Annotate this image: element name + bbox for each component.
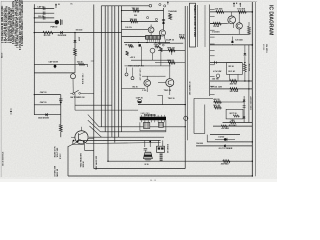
wire bus line 2 xyxy=(104,6,106,132)
wire right drop x60 xyxy=(60,95,62,125)
svg-text:100 30: 100 30 xyxy=(38,16,45,18)
label col bottom-left 1a xyxy=(54,146,57,157)
node TP3 xyxy=(155,18,157,20)
wire long vertical x185 xyxy=(184,6,186,140)
label col bottom-left 1b xyxy=(57,147,59,157)
wire bus line 5 xyxy=(114,6,116,143)
wire SW1 right lead xyxy=(81,92,94,94)
wire ladder rung 1 xyxy=(210,9,215,11)
capacitor C7 xyxy=(144,148,148,152)
svg-text:TR3 500: TR3 500 xyxy=(130,19,137,21)
value label R20 xyxy=(230,82,237,85)
wire bus line 4 xyxy=(111,6,113,137)
note text line 2 xyxy=(3,8,6,43)
node q2 lead a xyxy=(73,140,75,142)
value label D2 vertical xyxy=(78,37,80,41)
svg-text:300 W: 300 W xyxy=(83,161,85,167)
svg-text:TWO VALVE 300: TWO VALVE 300 xyxy=(95,156,98,170)
resistor R18 xyxy=(248,26,251,34)
label 7b top xyxy=(70,3,73,5)
resistor R23 xyxy=(214,106,221,109)
resistor R8 xyxy=(129,45,134,47)
svg-text:+30 MAX: +30 MAX xyxy=(221,127,230,130)
value label VR3 xyxy=(77,62,83,64)
transistor Q11 xyxy=(216,74,220,78)
value label R15 xyxy=(215,7,224,10)
node bus junction a xyxy=(121,10,122,11)
value label rail88 xyxy=(211,85,222,88)
resistor R20 xyxy=(230,80,237,83)
value label rail xyxy=(76,29,83,31)
power +B arrow r2 xyxy=(239,3,241,7)
svg-text:+30 V: +30 V xyxy=(130,57,136,59)
resistor R24 xyxy=(233,115,239,117)
svg-text:TR2 500: TR2 500 xyxy=(132,8,139,10)
power +B arrow right xyxy=(167,1,169,4)
value label R16 xyxy=(237,7,246,10)
svg-text:TWO 30: TWO 30 xyxy=(164,90,172,92)
wire rail y62 xyxy=(155,62,185,64)
wire rail audio y104 xyxy=(138,104,185,106)
diode D9 xyxy=(243,117,246,119)
label under J1 xyxy=(51,26,58,28)
wire ladder rung 10 xyxy=(210,75,215,77)
wire rail r y44 xyxy=(210,44,253,46)
value label R27 xyxy=(221,162,230,165)
capacitor C6 xyxy=(243,106,246,107)
capacitor C5 xyxy=(162,19,165,20)
wire rail y29 xyxy=(122,29,149,31)
svg-text:BASE 30 R: BASE 30 R xyxy=(54,146,57,157)
label bottom margin xyxy=(150,180,156,182)
svg-text:SW POWER ON: SW POWER ON xyxy=(70,97,85,99)
value label R5 xyxy=(132,8,139,10)
value label rail y94 xyxy=(40,91,47,94)
wire bus line 1 xyxy=(100,6,102,127)
wire SW1 left lead xyxy=(70,93,72,95)
wire audio drop a xyxy=(139,122,141,130)
wire rail r y62 xyxy=(210,62,243,64)
diode D4 xyxy=(162,22,165,24)
svg-text:PRE 301: PRE 301 xyxy=(167,48,175,50)
wire right border inner xyxy=(251,2,253,176)
pin stubs U2 top xyxy=(142,115,165,117)
svg-text:CAP 301W: CAP 301W xyxy=(49,61,59,64)
label TWO30 mid xyxy=(168,98,175,100)
resistor R16 xyxy=(238,11,246,14)
value label R21 xyxy=(230,90,239,93)
label U3 vertical xyxy=(193,5,197,37)
value label SP1 xyxy=(145,164,149,166)
wire ladder rung 11 xyxy=(210,85,215,87)
value label rail134 xyxy=(218,135,224,138)
wire rail y94 xyxy=(34,94,61,96)
wire rail r y122 xyxy=(223,122,253,124)
wire bottom ground bus xyxy=(68,175,253,177)
svg-text:IC DIAGRAM: IC DIAGRAM xyxy=(268,5,274,35)
connector CN3 xyxy=(157,146,165,152)
node rb junction 1 xyxy=(252,141,253,142)
label subtitle xyxy=(265,44,267,53)
value label D3 xyxy=(38,117,49,120)
connector CN2 xyxy=(159,122,164,127)
value label R10 xyxy=(44,35,51,37)
pin label col right xyxy=(249,97,252,111)
resistor R5 xyxy=(133,9,139,12)
wire rail y21 xyxy=(122,20,159,22)
wire ladder rung 5 xyxy=(210,36,215,38)
resistor R22 xyxy=(214,101,221,104)
resistor R25 xyxy=(230,121,236,123)
pin numbers U2 top xyxy=(141,112,150,115)
diode D1 xyxy=(60,31,62,34)
wire long vertical x187 xyxy=(186,6,188,140)
wire drop x160 xyxy=(160,51,162,66)
label MIC41 xyxy=(213,104,220,107)
wire cluster stub a xyxy=(126,68,128,74)
svg-text:1N4 4148: 1N4 4148 xyxy=(168,10,176,13)
value label R7 xyxy=(168,10,176,13)
svg-text:30 W: 30 W xyxy=(78,37,80,41)
label Q6 xyxy=(142,90,147,92)
wire rail r y81 xyxy=(210,80,253,82)
wire x75 mid段 xyxy=(74,56,76,73)
value label R5b xyxy=(134,15,137,17)
node TP5 xyxy=(164,5,166,7)
capacitor C2 xyxy=(43,12,45,15)
wire bus top bar xyxy=(101,5,149,7)
svg-text:9 SCHEMATIC SUBJECT TO CHANGE: 9 SCHEMATIC SUBJECT TO CHANGE NOTICE xyxy=(21,0,24,46)
diode D5 blob xyxy=(139,44,141,46)
svg-text:SOUND 30: SOUND 30 xyxy=(166,144,168,153)
wire cap bank row 4 xyxy=(34,21,54,23)
node rail126 junction xyxy=(185,126,186,127)
wire drop x141 xyxy=(141,47,143,66)
wire vertical x205 xyxy=(204,5,206,47)
svg-text:WV 30: WV 30 xyxy=(179,35,184,37)
wire vertical x197 xyxy=(197,5,199,47)
svg-text:100 1W: 100 1W xyxy=(212,78,219,80)
note text line 3 xyxy=(6,6,9,43)
svg-text:R10 30: R10 30 xyxy=(44,35,51,37)
wire long vertical x94 xyxy=(93,5,95,169)
value label rail y104 xyxy=(40,101,47,104)
label U5 xyxy=(230,113,238,115)
value label y145 left xyxy=(196,142,203,145)
note text line 1 xyxy=(1,5,4,43)
svg-text:R 30 C: R 30 C xyxy=(60,153,62,159)
wire right border outer xyxy=(254,2,256,176)
wire rail r y23 xyxy=(210,23,227,25)
wire rail y60 xyxy=(131,59,171,61)
resistor R28 xyxy=(180,36,185,38)
wire rail r y126 xyxy=(213,125,252,127)
power +B arrow r1 xyxy=(233,2,238,7)
wire ladder rung 4 xyxy=(210,29,215,31)
note text line 6 xyxy=(12,0,15,44)
label CN3 vertical xyxy=(166,144,168,153)
value label R17 xyxy=(213,25,220,28)
wire bus line 3 xyxy=(107,6,109,161)
diode D3 xyxy=(46,113,48,116)
connector pins J1 xyxy=(60,19,62,25)
svg-text:1CAP 30: 1CAP 30 xyxy=(166,39,175,42)
value label R6 xyxy=(130,19,137,21)
wire diagonal 1 xyxy=(88,115,99,127)
svg-text:30 - 12: 30 - 12 xyxy=(150,180,156,182)
wire U4 drop a xyxy=(229,74,231,81)
connector CN3 pins xyxy=(160,154,163,161)
op-amp U3 board box xyxy=(190,3,196,47)
svg-text:VOLT 300: VOLT 300 xyxy=(57,147,59,157)
node tick on x94 xyxy=(91,60,94,62)
value label D1 xyxy=(58,35,67,37)
wire corner audio xyxy=(158,96,163,105)
wire left border xyxy=(0,1,2,177)
wire diagonal 2 xyxy=(88,120,101,132)
label SW POWER ON xyxy=(70,97,85,99)
resistor R6 xyxy=(130,20,138,23)
svg-text:S/MEDIA BOARD 301 SND: S/MEDIA BOARD 301 SND xyxy=(193,5,197,37)
svg-text:400 MAX: 400 MAX xyxy=(221,162,230,165)
label col bottom-left 2b xyxy=(57,168,59,176)
wire rail y142 xyxy=(86,143,161,144)
wire rail y161 xyxy=(108,160,252,162)
svg-text:1N4 000: 1N4 000 xyxy=(196,142,203,145)
node r junction 1 xyxy=(252,11,254,13)
wire ladder rung 9 xyxy=(210,64,215,66)
note text line 10 xyxy=(21,0,24,46)
resistor R4 xyxy=(59,125,62,132)
wire emitter return x68 xyxy=(67,146,69,176)
wire rail r y88 xyxy=(210,88,253,90)
svg-text:110 40: 110 40 xyxy=(213,25,220,28)
wire rail y76 xyxy=(142,75,166,77)
svg-text:VR 30: VR 30 xyxy=(228,66,234,68)
svg-text:SM 9P10: SM 9P10 xyxy=(265,44,267,53)
microphone MIC1 xyxy=(138,99,142,103)
value label rail y64 xyxy=(49,61,59,64)
label subtitle b xyxy=(262,44,264,50)
wire main horizontal rail xyxy=(34,32,121,34)
node q2 lead b xyxy=(77,140,79,142)
wire box frame left xyxy=(193,98,195,133)
diode D8 xyxy=(243,100,246,102)
value label rail81 xyxy=(212,78,219,80)
node bus junction b xyxy=(121,21,122,22)
svg-text:C 30 C 30 C 30: C 30 C 30 C 30 xyxy=(139,69,141,81)
label col bottom-left 3b xyxy=(83,161,85,167)
resistor R9 xyxy=(155,46,160,48)
wire rail y137 xyxy=(89,136,164,138)
wire bus line 7 xyxy=(121,6,123,132)
wire speaker drop 1b xyxy=(149,140,151,147)
svg-text:4.7k 12W: 4.7k 12W xyxy=(213,70,221,73)
value label VR6 xyxy=(231,120,236,122)
wire ladder rung 2 xyxy=(210,16,215,18)
wire rail y36 xyxy=(122,36,148,38)
svg-text:PWR 30: PWR 30 xyxy=(51,26,58,28)
node TP1 test point xyxy=(149,4,152,7)
op-amp U5 box xyxy=(226,109,243,119)
resistor R19 xyxy=(244,64,247,72)
svg-text:SVC 41 12W: SVC 41 12W xyxy=(211,85,222,88)
label left margin MA xyxy=(1,53,4,58)
wire rail y65 xyxy=(125,65,171,67)
svg-text:CAP 30: CAP 30 xyxy=(37,5,45,8)
svg-text:1 02 401: 1 02 401 xyxy=(212,30,221,33)
svg-text:ON SOUND 30: ON SOUND 30 xyxy=(190,81,192,95)
node r81 junction xyxy=(244,80,245,81)
wire speaker drop 2b xyxy=(162,140,164,146)
transistor Q3 xyxy=(148,25,154,37)
wire rail r y139 xyxy=(215,138,235,140)
transistor Q1 xyxy=(71,74,76,79)
pin stubs U2 bottom xyxy=(142,120,165,122)
resistor R2 xyxy=(74,49,77,56)
value label R9 xyxy=(154,44,162,46)
wire drop x163 xyxy=(163,8,165,30)
svg-text:MEG 30: MEG 30 xyxy=(57,168,59,176)
wire Q2 collector top xyxy=(81,127,83,131)
node U1 junction 1 xyxy=(138,42,139,43)
op-amp U4 box xyxy=(227,63,243,75)
label margin bottom xyxy=(2,151,4,166)
wire rail r y134 xyxy=(210,134,240,136)
node r junction 4 xyxy=(248,88,249,89)
wire rail y126 xyxy=(99,126,185,128)
resistor R12v xyxy=(126,51,128,55)
value label R26 xyxy=(221,127,230,130)
pin label column Q1 xyxy=(81,74,84,85)
capacitor C8 ticks xyxy=(215,61,217,64)
label Q7 xyxy=(164,90,172,92)
label cap30 xyxy=(166,39,175,42)
label 102401 xyxy=(212,30,221,33)
svg-text:NO 30 SERVICE: NO 30 SERVICE xyxy=(2,151,4,166)
wire ladder rung 3 xyxy=(210,22,215,24)
wire cluster stub b xyxy=(132,68,134,77)
label col right of x94 xyxy=(95,156,98,170)
wire speaker drop 2a xyxy=(157,140,159,146)
transistor Q7 xyxy=(158,63,174,95)
wire main left vertical bus xyxy=(33,4,35,115)
node v1 branch d xyxy=(34,94,35,95)
resistor R15 xyxy=(216,11,224,14)
label TWO30 xyxy=(128,66,136,68)
svg-text:SVC 4148: SVC 4148 xyxy=(230,90,239,93)
op-amp U1 block xyxy=(146,36,161,40)
wire cap bank row 1 xyxy=(34,7,54,9)
power +B arrow top xyxy=(55,3,60,8)
value label C1 xyxy=(37,5,45,8)
node TP4 xyxy=(159,4,161,6)
node speaker lead dot xyxy=(149,141,151,143)
wire Q2 emitter lead xyxy=(68,142,77,147)
value label R25 xyxy=(229,124,238,127)
svg-text:PRE 30: PRE 30 xyxy=(154,44,162,46)
label U4 b xyxy=(228,70,236,73)
wire ladder rung 6 xyxy=(210,43,215,45)
wire diagonal 3 xyxy=(90,126,102,137)
node J1 connector xyxy=(55,20,59,24)
svg-text:110 404: 110 404 xyxy=(215,7,224,10)
diode D10 xyxy=(224,145,226,148)
svg-text:IN DIODE: IN DIODE xyxy=(58,35,67,37)
svg-text:SVC 41: SVC 41 xyxy=(228,70,236,73)
label mini col x60 xyxy=(60,153,62,159)
node TP6 xyxy=(162,44,164,46)
wire rail y64 tail tick xyxy=(87,64,89,67)
wire R18 top lead xyxy=(248,22,250,26)
wire bus line 6 xyxy=(118,6,120,137)
value label Q11 xyxy=(213,70,221,73)
svg-text:100 30: 100 30 xyxy=(77,62,83,64)
svg-text:MA 30: MA 30 xyxy=(1,53,4,58)
wire box frame top xyxy=(194,97,213,99)
wire R19 tail xyxy=(244,72,246,81)
node v1 branch b xyxy=(34,17,35,18)
label IC DIAGRAM xyxy=(268,5,274,35)
svg-text:4148 DIODE: 4148 DIODE xyxy=(38,117,49,120)
pin label col cluster xyxy=(139,69,141,81)
wire rail y42 xyxy=(124,42,170,44)
connector CN1 xyxy=(144,122,150,128)
wire rail r y11 xyxy=(210,11,253,13)
resistor R21 xyxy=(230,88,238,91)
label col bottom-left 3a xyxy=(80,153,83,168)
svg-text:N 30: N 30 xyxy=(145,164,149,166)
wire box frame inner xyxy=(204,105,206,134)
wire box frame bottom xyxy=(194,133,205,135)
wire rail audio y130 xyxy=(140,130,166,132)
node left margin tick xyxy=(10,108,12,114)
resistor R14 xyxy=(168,61,175,64)
node v1 branch c xyxy=(34,32,35,33)
node U1 junction 3 xyxy=(155,42,156,43)
svg-text:120 404: 120 404 xyxy=(235,38,243,41)
wire rail r y34 xyxy=(210,33,249,35)
note text line 8 xyxy=(17,0,20,48)
wire cap bank row 3 xyxy=(34,17,54,19)
resistor R13 xyxy=(168,49,175,52)
value label rail y88 xyxy=(133,86,138,88)
resistor R27 xyxy=(223,160,230,163)
wire rail y64 xyxy=(34,63,87,65)
wire q2 staircase xyxy=(73,141,94,151)
wire rail r y102 xyxy=(213,101,244,103)
svg-text:CAP 30: CAP 30 xyxy=(40,91,47,94)
node cluster circle a xyxy=(125,73,128,76)
wire drop x75 low xyxy=(74,93,76,110)
value label D6 xyxy=(235,38,243,41)
resistor R26 xyxy=(221,125,227,127)
node rb junction 2 xyxy=(252,161,253,162)
wire vertical x185 lower xyxy=(184,140,186,168)
wire inner vertical x249 xyxy=(248,45,250,123)
svg-text:GO TO ZENER: GO TO ZENER xyxy=(219,148,233,150)
wire ladder rung 12 xyxy=(210,94,215,96)
potentiometer VR1 wiper xyxy=(54,64,57,68)
note text line 4 xyxy=(8,7,11,43)
svg-text:RGB 30: RGB 30 xyxy=(167,60,174,62)
svg-text:100 1%: 100 1% xyxy=(125,27,132,29)
wire U4 drop b xyxy=(237,74,239,81)
wire ladder vertical xyxy=(209,5,211,97)
transistor Q2 power xyxy=(75,131,88,144)
node r62 junction xyxy=(244,62,245,63)
pin stubs U1 xyxy=(147,39,158,42)
